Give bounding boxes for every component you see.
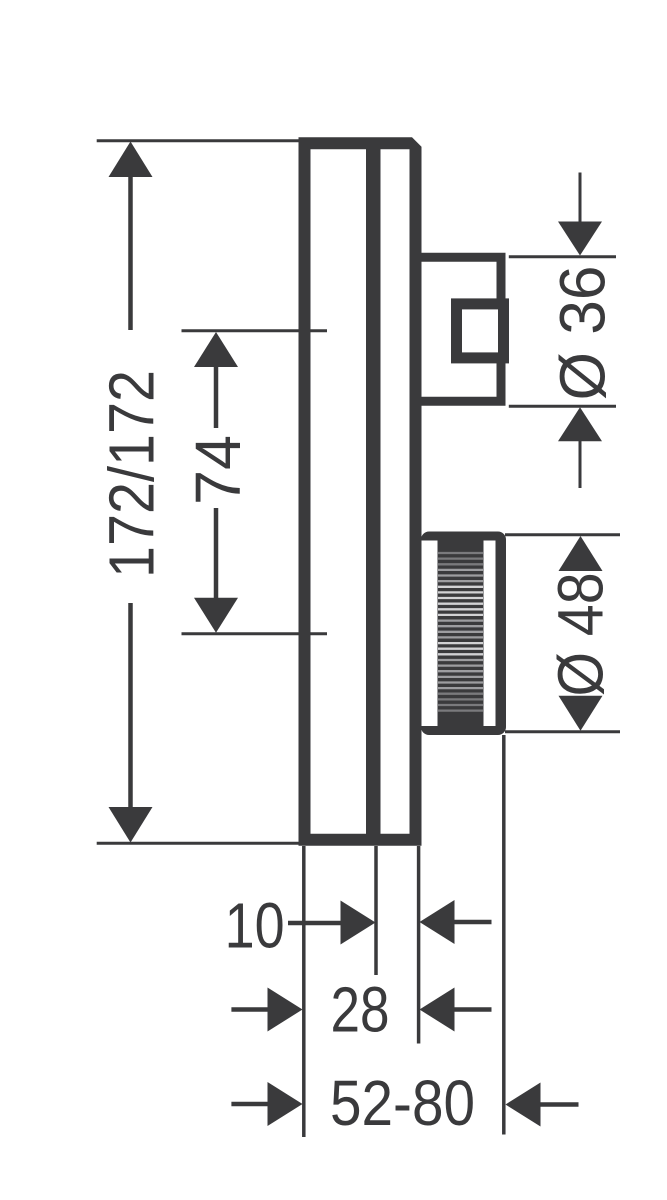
dim Ø36: lower stem	[579, 440, 582, 488]
dim Ø48: bottom extension line	[505, 730, 620, 733]
dim 172/172: upper stem	[128, 176, 133, 330]
dim Ø36: top arrow (down)	[558, 222, 602, 256]
knob open left gap	[422, 541, 438, 727]
dim 10: leader line	[288, 921, 342, 926]
extension line from inner wall down	[374, 846, 378, 975]
dim 10: right stem	[454, 920, 492, 925]
dim 28: right-pointing arrow	[268, 988, 303, 1032]
dim 10: right-pointing arrow	[341, 901, 376, 945]
dim Ø36: upper stem	[579, 173, 582, 225]
svg-text:74: 74	[182, 435, 254, 505]
dim 28: left stem	[231, 1007, 269, 1012]
dim 74: top arrow	[194, 332, 238, 367]
knob inner white strip right	[484, 541, 496, 727]
dim 52-80: right stem	[540, 1102, 579, 1107]
extension line from body right edge down	[417, 846, 421, 1044]
spout housing (upper right protrusion)	[415, 257, 501, 401]
square stem on spout housing	[457, 304, 504, 358]
dim 74: bottom extension line	[182, 632, 328, 635]
dim 172/172: lower stem	[128, 603, 133, 808]
dim 172/172: bottom arrow	[109, 807, 153, 843]
dim 172/172: top extension line	[97, 139, 300, 142]
dim 172/172: bottom extension line	[97, 842, 300, 845]
dim Ø48: bottom arrow (down)	[559, 696, 603, 731]
dim 10: left-pointing arrow	[420, 900, 455, 944]
knurl ridges	[438, 552, 483, 554]
dim 52-80: left stem	[231, 1102, 269, 1107]
dim 28: left-pointing arrow	[420, 988, 455, 1032]
svg-text:52-80: 52-80	[330, 1067, 475, 1139]
dim Ø36: bottom extension line	[509, 405, 616, 408]
body: wall plate side view outline	[299, 137, 422, 846]
knob: knurled handle body	[421, 532, 506, 736]
dim Ø48: top arrow (up)	[559, 536, 603, 571]
dim 172/172: top arrow	[109, 142, 153, 178]
extension line from body left edge down	[302, 846, 306, 1137]
dim 74: lower stem	[214, 508, 219, 599]
svg-text:172/172: 172/172	[96, 370, 168, 578]
dim 28: right stem	[454, 1007, 492, 1012]
dim 52-80: left-pointing arrow	[506, 1083, 541, 1127]
dim Ø36: bottom arrow (up)	[558, 407, 602, 441]
dim Ø48: top extension line	[505, 533, 620, 536]
extension line from knob right edge down	[502, 735, 506, 1135]
dim 52-80: right-pointing arrow	[268, 1082, 303, 1126]
svg-text:Ø 48: Ø 48	[545, 573, 617, 697]
dim 74: upper stem	[214, 366, 219, 428]
dim 74: top extension line	[182, 329, 328, 332]
svg-text:28: 28	[331, 974, 390, 1046]
dim Ø36: top extension line	[509, 255, 616, 258]
svg-text:10: 10	[225, 890, 285, 962]
svg-text:Ø 36: Ø 36	[547, 266, 619, 401]
dim 74: bottom arrow	[194, 598, 238, 633]
